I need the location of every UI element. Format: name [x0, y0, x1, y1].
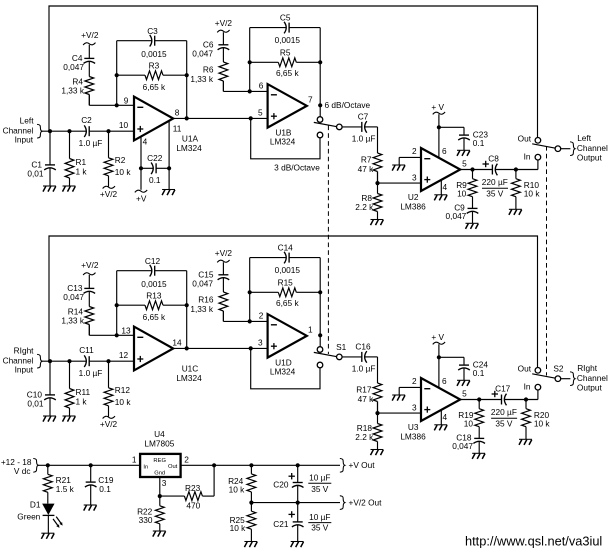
svg-text:2: 2: [412, 146, 417, 156]
wire feedback 2 box right: [319, 28, 321, 106]
Left Channel Input label: [3, 115, 35, 144]
C20 value label: [273, 472, 331, 493]
svg-text:U3: U3: [408, 422, 419, 432]
wire to In contact: [537, 160, 539, 170]
svg-text:Out: Out: [518, 134, 532, 144]
junction R5 left: [248, 60, 252, 64]
ground C23: [457, 150, 470, 156]
junction pin3/R22/R23: [158, 494, 162, 498]
svg-text:10 k: 10 k: [115, 167, 132, 177]
switch S2 common contact: [555, 376, 561, 382]
svg-text:6: 6: [259, 81, 264, 91]
resistor R19: [475, 400, 484, 439]
junction R3 left: [115, 303, 119, 307]
svg-text:6,65 k: 6,65 k: [143, 82, 166, 92]
wire switch common to C7: [342, 126, 362, 128]
capacitor C6: [218, 32, 230, 62]
svg-text:1 k: 1 k: [76, 396, 88, 406]
junction R23 top: [212, 463, 216, 467]
R20 value label: [534, 410, 551, 429]
ground pin 11: [162, 190, 175, 196]
svg-text:0,047: 0,047: [63, 292, 84, 302]
amplifier U3: [421, 378, 460, 421]
In label: [524, 152, 531, 162]
svg-text:47 k: 47 k: [358, 394, 375, 404]
Left Channel Output label: [577, 133, 608, 162]
svg-text:5: 5: [462, 159, 467, 169]
svg-text:R15: R15: [278, 278, 294, 288]
R11 value label: [76, 387, 91, 407]
svg-text:470: 470: [186, 501, 200, 511]
node +12-18 V dc input terminal: [1, 457, 38, 476]
op-amp U1B: [268, 84, 307, 128]
svg-text:LM386: LM386: [400, 202, 426, 212]
R21 value label: [56, 475, 75, 494]
svg-text:3: 3: [412, 173, 417, 183]
U3 name label: [400, 422, 426, 442]
capacitor C24: [439, 357, 470, 380]
resistor R23: [160, 465, 214, 500]
junction C20/C21: [296, 501, 300, 505]
svg-text:220 µF: 220 µF: [482, 177, 508, 187]
wire +V to pin 6: [438, 114, 440, 158]
junction feedback 2 left: [248, 89, 252, 93]
power terminal +V/2 above C4: [81, 260, 99, 275]
svg-text:+V/2: +V/2: [81, 30, 99, 40]
ground R10: [509, 209, 522, 215]
C9 value label: [446, 203, 467, 221]
svg-text:C17: C17: [495, 384, 511, 394]
capacitor C7: [362, 121, 367, 133]
wire bypass line Left channel (input to Out contact): [49, 6, 538, 138]
svg-text:330: 330: [139, 515, 153, 525]
wire C7 to R7: [365, 127, 378, 153]
svg-text:0,01: 0,01: [27, 168, 44, 178]
svg-text:C20: C20: [273, 480, 289, 490]
svg-text:In: In: [524, 152, 531, 162]
wire op-amp 1 output: [173, 347, 268, 349]
op-amp U1A: [134, 97, 173, 141]
svg-text:10 k: 10 k: [534, 419, 551, 429]
svg-text:C3: C3: [147, 26, 158, 36]
wire pin 4 to ground: [440, 180, 442, 195]
svg-text:C12: C12: [145, 256, 161, 266]
U1B pin 7 label: [308, 94, 313, 104]
svg-text:Left: Left: [577, 133, 592, 143]
svg-text:V dc: V dc: [14, 466, 31, 476]
svg-text:R13: R13: [146, 291, 162, 301]
ground R10: [519, 439, 532, 445]
resistor R7: [373, 153, 382, 183]
junction C22 left: [139, 166, 143, 170]
R6 value label: [190, 64, 213, 84]
U3 pin 5 label: [462, 389, 467, 399]
power terminal +V/2 below R2: [100, 416, 118, 429]
switch SW2 arm: [532, 144, 555, 148]
junction R3 left: [115, 73, 119, 77]
svg-text:47 k: 47 k: [358, 164, 375, 174]
svg-text:Input: Input: [15, 135, 34, 145]
svg-text:0,047: 0,047: [63, 62, 84, 72]
junction R3 right: [185, 73, 189, 77]
svg-text:4: 4: [442, 182, 447, 192]
C23 value label: [473, 130, 489, 148]
svg-text:U2: U2: [408, 192, 419, 202]
ground R8: [371, 450, 384, 456]
RIght Channel Input label: [3, 345, 35, 374]
junction R1 top: [67, 359, 71, 363]
U4 pin 2 label: [184, 455, 189, 465]
wire pin 2 to ground: [399, 387, 421, 395]
switch S1 label: [336, 342, 347, 352]
RIght Channel Output label: [577, 363, 608, 392]
U3 pin 3 label: [412, 403, 417, 413]
resistor R14: [85, 307, 94, 336]
resistor R24: [247, 465, 256, 502]
junction R1 top: [67, 129, 71, 133]
C18 value label: [452, 433, 473, 451]
wire pin 2 to ground: [399, 157, 421, 165]
resistor R5: [250, 58, 321, 67]
U1B pin 5 label: [258, 108, 263, 118]
svg-text:In: In: [524, 382, 531, 392]
power terminal +V/2 above C6: [215, 18, 233, 32]
power terminal +V/2 above C4: [81, 30, 99, 45]
capacitor C12: [117, 265, 187, 277]
wire U4 output rail: [181, 464, 340, 466]
switch S2 Out contact: [535, 368, 541, 374]
U1D pin 3 label: [258, 338, 263, 348]
capacitor C8 (electrolytic): [483, 161, 498, 176]
R1 value label: [76, 157, 88, 177]
svg-text:1.0 µF: 1.0 µF: [79, 368, 103, 378]
U1A pin 11 label: [173, 123, 182, 133]
svg-text:10 k: 10 k: [229, 485, 246, 495]
wire R6 to op-amp 2 inverting input: [223, 81, 267, 91]
svg-text:12: 12: [119, 350, 129, 360]
wire output terminal: [561, 378, 571, 380]
resistor R21: [43, 465, 52, 503]
R4 value label: [61, 76, 84, 95]
svg-text:+ V: + V: [431, 332, 444, 342]
svg-text:R2: R2: [115, 155, 126, 165]
wire bypass line RIght channel (input to Out contact): [49, 236, 538, 368]
power terminal +V/2 below R2: [100, 186, 118, 199]
ground C1: [43, 416, 56, 422]
svg-text:Output: Output: [577, 152, 603, 162]
junction R2 top: [106, 129, 110, 133]
svg-text:R6: R6: [203, 64, 214, 74]
svg-text:D1: D1: [30, 499, 41, 509]
svg-text:10: 10: [457, 189, 467, 199]
ground R1: [63, 186, 76, 192]
3 dB/Octave label: [274, 163, 320, 173]
U2 name label: [400, 192, 426, 212]
wire to power-amp + input: [378, 182, 422, 184]
svg-text:Out: Out: [518, 364, 532, 374]
U3 pin 6 label: [442, 376, 447, 386]
svg-text:0,0015: 0,0015: [275, 35, 301, 45]
power terminal +V below U1A: [135, 190, 147, 204]
ground pin 4: [434, 195, 447, 201]
wire power amp output: [460, 399, 538, 401]
C3 value label: [141, 26, 167, 59]
wire output to switch contact: [319, 335, 321, 347]
svg-text:LM386: LM386: [400, 432, 426, 442]
U4 pin 1 label: [132, 455, 137, 465]
svg-text:9: 9: [124, 95, 129, 105]
junction R9 top: [470, 167, 474, 171]
svg-text:10 µF: 10 µF: [309, 512, 330, 522]
svg-text:0,047: 0,047: [446, 211, 467, 221]
C10 value label: [27, 389, 44, 408]
R9 value label: [456, 180, 467, 199]
wire pin 4 to ground: [440, 410, 442, 425]
svg-text:10 µF: 10 µF: [309, 472, 330, 482]
svg-text:2.2 k: 2.2 k: [355, 432, 374, 442]
capacitor C13: [84, 275, 96, 307]
svg-text:0,047: 0,047: [192, 48, 213, 58]
C15 value label: [192, 269, 214, 288]
R17 value label: [356, 384, 374, 404]
svg-text:0.1: 0.1: [473, 368, 485, 378]
svg-text:6,65 k: 6,65 k: [276, 68, 299, 78]
wire R4 to inverting input: [89, 95, 134, 106]
junction R7/R8: [375, 402, 379, 416]
svg-text:1.0 µF: 1.0 µF: [352, 364, 376, 374]
svg-text:REG: REG: [153, 458, 166, 464]
switch SW2 common contact: [555, 146, 561, 152]
U1A pin 10 label: [119, 120, 129, 130]
svg-text:LM7805: LM7805: [144, 439, 174, 449]
C13 value label: [63, 283, 84, 302]
ground C9: [472, 453, 485, 459]
svg-text:In: In: [143, 464, 148, 470]
C17 value label: [491, 384, 517, 429]
power terminal +V above power amp: [431, 332, 445, 345]
junction R7/R8: [375, 172, 379, 186]
svg-text:1.0 µF: 1.0 µF: [79, 138, 103, 148]
svg-text:C14: C14: [278, 242, 294, 252]
junction op-amp 2 output: [318, 333, 322, 337]
svg-text:3 dB/Octave: 3 dB/Octave: [274, 163, 320, 173]
junction feedback left: [115, 103, 119, 107]
switch linkage dashed line S1: [327, 126, 329, 355]
R7 value label: [358, 154, 375, 174]
wire input node: [42, 130, 134, 132]
svg-text:+V/2: +V/2: [215, 18, 233, 28]
svg-text:35 V: 35 V: [495, 418, 513, 428]
capacitor C15: [218, 262, 230, 292]
junction R24 top: [249, 463, 253, 467]
junction +V / C23: [437, 355, 441, 359]
svg-text:10 k: 10 k: [230, 523, 247, 533]
resistor R8: [373, 183, 382, 219]
svg-text:1.0 µF: 1.0 µF: [352, 134, 376, 144]
wire power amp output: [460, 169, 538, 171]
wire output to switch contact: [319, 105, 321, 117]
svg-text:R5: R5: [280, 48, 291, 58]
svg-text:35 V: 35 V: [311, 484, 329, 494]
svg-text:0,047: 0,047: [452, 441, 473, 451]
junction R3 right: [185, 303, 189, 307]
svg-text:U4: U4: [154, 429, 165, 439]
svg-text:0,0015: 0,0015: [141, 49, 167, 59]
resistor R17: [373, 383, 382, 413]
svg-text:Gnd: Gnd: [154, 471, 165, 477]
svg-text:R11: R11: [76, 387, 91, 397]
U1D pin 1 label: [308, 324, 313, 334]
junction C19 top: [89, 463, 93, 467]
C16 value label: [352, 342, 376, 374]
svg-text:10: 10: [119, 120, 129, 130]
U1D pin 2 label: [259, 311, 264, 321]
C14 value label: [275, 242, 301, 275]
junction R5 left: [248, 290, 252, 294]
svg-text:1,33 k: 1,33 k: [190, 74, 213, 84]
power terminal +V/2 above C6: [215, 248, 233, 262]
node Left Channel Input terminal: [38, 124, 43, 138]
svg-text:+V Out: +V Out: [349, 460, 376, 470]
Out label: [518, 364, 532, 374]
svg-text:C16: C16: [355, 342, 371, 352]
svg-text:1: 1: [308, 324, 313, 334]
wire to power-amp + input: [378, 412, 422, 414]
junction R10 top: [514, 167, 518, 171]
regulator U4 LM7805: [140, 454, 181, 477]
wire 3 dB/Octave tap: [251, 348, 320, 388]
svg-text:1,33 k: 1,33 k: [61, 86, 84, 96]
U2 pin 4 label: [442, 182, 447, 192]
switch S2 arm: [532, 374, 555, 378]
R24 value label: [228, 476, 245, 495]
wire +V/2 rail: [251, 502, 340, 504]
R25 value label: [230, 515, 247, 533]
svg-text:RIght: RIght: [577, 363, 598, 373]
svg-text:C5: C5: [280, 12, 291, 22]
capacitor C10: [44, 361, 56, 416]
C11 value label: [79, 345, 103, 378]
R2 value label: [115, 155, 132, 177]
U1C pin 13 label: [121, 325, 131, 335]
resistor R15: [250, 288, 321, 297]
svg-text:LM324: LM324: [270, 137, 296, 147]
svg-text:C11: C11: [79, 345, 94, 355]
capacitor C17 (electrolytic): [492, 391, 507, 406]
svg-text:Green: Green: [17, 511, 40, 521]
resistor R1: [65, 131, 74, 186]
ground pin 4: [434, 425, 447, 431]
C5 value label: [275, 12, 301, 45]
resistor R6: [219, 62, 228, 91]
URL caption: [465, 534, 602, 549]
R5 value label: [276, 48, 299, 78]
node +V Out terminal: [340, 459, 375, 473]
wire R6 to op-amp 2 inverting input: [223, 311, 267, 321]
svg-text:2: 2: [259, 311, 264, 321]
wire output terminal: [561, 148, 571, 150]
capacitor C2: [84, 125, 89, 137]
U1B name label: [270, 128, 296, 147]
svg-text:1: 1: [132, 455, 137, 465]
C19 value label: [98, 475, 114, 494]
R3 value label: [143, 61, 166, 92]
svg-text:14: 14: [172, 338, 182, 348]
svg-text:5: 5: [258, 108, 263, 118]
svg-text:+V/2: +V/2: [215, 248, 233, 258]
wire feedback 2 box left: [249, 28, 251, 92]
switch S1 common contact: [337, 354, 343, 360]
capacitor C1: [44, 131, 56, 186]
switch S2 In contact: [535, 384, 541, 390]
U2 pin 3 label: [412, 173, 417, 183]
capacitor C19: [85, 465, 97, 505]
capacitor C11: [84, 355, 89, 367]
wire feedback 2 box right: [319, 258, 321, 336]
resistor R25: [247, 503, 256, 542]
U1A name label: [176, 134, 202, 153]
svg-text:6,65 k: 6,65 k: [143, 312, 166, 322]
C1 value label: [27, 159, 44, 178]
ground C9: [466, 223, 479, 229]
switch linkage dashed line S2: [546, 146, 548, 376]
R19 value label: [458, 410, 474, 429]
U1A pin 8 label: [175, 108, 180, 118]
svg-text:2.2 k: 2.2 k: [355, 202, 374, 212]
resistor R18: [373, 413, 382, 449]
svg-text:Input: Input: [15, 365, 34, 375]
resistor R20: [522, 400, 531, 440]
resistor R12: [104, 361, 113, 416]
U4 pin 3 label: [162, 478, 167, 488]
In label: [524, 382, 531, 392]
svg-text:5: 5: [462, 389, 467, 399]
U2 pin 6 label: [442, 146, 447, 156]
capacitor C16: [362, 351, 367, 363]
junction input/bypass: [48, 129, 52, 133]
op-amp U1C: [134, 327, 173, 371]
U2 pin 5 label: [462, 159, 467, 169]
wire input node: [42, 360, 134, 362]
junction 3dB tap: [249, 346, 253, 350]
capacitor C4: [84, 45, 96, 77]
switch S1 lower contact (3 dB): [317, 362, 323, 368]
svg-text:+V/2: +V/2: [100, 189, 118, 199]
svg-text:http://www.qsl.net/va3iul: http://www.qsl.net/va3iul: [465, 534, 602, 549]
R18 value label: [355, 423, 374, 442]
svg-text:Left: Left: [20, 115, 35, 125]
junction feedback left: [115, 333, 119, 337]
ground D1: [41, 533, 54, 539]
wire main input rail: [38, 464, 140, 466]
svg-text:+V/2: +V/2: [81, 260, 99, 270]
C4 value label: [63, 53, 84, 72]
op-amp U1D: [268, 314, 307, 358]
node RIght Channel Output terminal: [571, 372, 576, 386]
resistor R4: [85, 77, 94, 106]
U4 name label: [144, 429, 174, 449]
junction R5 right: [318, 60, 322, 64]
U1A pin 9 label: [124, 95, 129, 105]
svg-text:0.1: 0.1: [99, 484, 111, 494]
svg-text:7: 7: [308, 94, 313, 104]
junction R21 top: [46, 463, 50, 467]
capacitor C21 (electrolytic): [289, 503, 304, 542]
svg-text:13: 13: [121, 325, 131, 335]
R16 value label: [190, 294, 213, 314]
svg-text:Out: Out: [168, 464, 178, 470]
capacitor C3: [117, 35, 187, 47]
